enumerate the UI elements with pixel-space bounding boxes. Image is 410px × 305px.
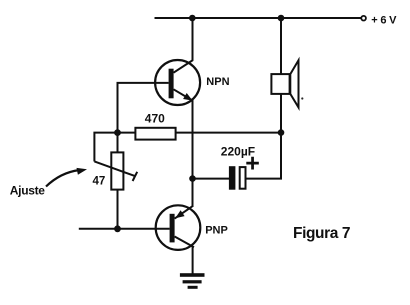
junction: base node / resistor / pot [114, 129, 121, 136]
potentiometer P1 47: top lead [117, 133, 119, 153]
svg-text:+ 6 V: + 6 V [371, 15, 397, 27]
potentiometer P1 47: wiper diagonal [94, 161, 135, 176]
svg-text:Ajuste: Ajuste [10, 184, 46, 198]
junction: rail to NPN collector [189, 15, 196, 22]
capacitor C1 220uF: positive plate (hollow) [240, 167, 246, 189]
junction: speaker bottom node [278, 129, 285, 136]
wire: speaker top lead [280, 18, 282, 74]
transistor Q1 NPN: body circle [155, 60, 200, 105]
potentiometer P1 47: body [111, 152, 123, 189]
resistor R1 470: body [135, 128, 175, 140]
wire: node to pot wiper branch [94, 133, 117, 162]
wire: speaker bottom lead [280, 94, 282, 133]
svg-text:+: + [245, 150, 260, 178]
junction: rail to speaker [278, 15, 285, 22]
wire: resistor right lead across to speaker/cap node [176, 132, 281, 134]
wire: cap right lead up to speaker node [246, 133, 281, 179]
potentiometer P1 47: wiper end tick [133, 172, 138, 181]
ground: bar 1 [180, 273, 205, 277]
ground: bar 2 [183, 280, 202, 283]
transistor Q1 NPN: base bar [169, 69, 174, 99]
transistor Q2 PNP: emitter stroke with inward arrow [175, 206, 194, 219]
capacitor C1 220uF: left lead [193, 178, 230, 180]
transistor Q2 PNP: body circle [156, 205, 201, 250]
wire: NPN base lead [118, 83, 169, 133]
junction: cap tap on mid vertical [189, 175, 196, 182]
wire: mid vertical (NPN emitter to PNP emitter) [192, 100, 194, 206]
transistor Q2 PNP: base bar [170, 214, 175, 243]
svg-text:PNP: PNP [205, 224, 228, 236]
speck near speaker cone [301, 97, 303, 99]
transistor Q1 NPN: collector stroke [174, 60, 194, 73]
potentiometer P1 47: bottom lead [117, 190, 119, 229]
junction: pot bottom on PNP base [114, 225, 121, 232]
arrow: Ajuste pointer [46, 170, 79, 186]
ground: bar 3 [188, 286, 198, 289]
wire: NPN collector vertical [192, 18, 194, 61]
svg-text:47: 47 [93, 175, 106, 187]
wire: PNP collector to ground [192, 247, 194, 275]
speaker LS1: cone [290, 60, 298, 107]
transistor Q2 PNP: collector stroke [175, 237, 194, 248]
resistor R1 470: left lead [118, 132, 136, 134]
speaker LS1: frame [271, 74, 289, 94]
svg-text:470: 470 [145, 112, 165, 126]
svg-text:NPN: NPN [206, 76, 229, 88]
transistor Q1 NPN: emitter stroke with arrow [174, 89, 193, 100]
node: +6V terminal (open circle) [361, 16, 366, 21]
svg-text:Figura 7: Figura 7 [293, 225, 350, 242]
capacitor C1 220uF: negative plate (solid) [229, 166, 236, 190]
wire: +6V top supply rail [155, 17, 364, 19]
wire: PNP base lead [79, 228, 170, 230]
